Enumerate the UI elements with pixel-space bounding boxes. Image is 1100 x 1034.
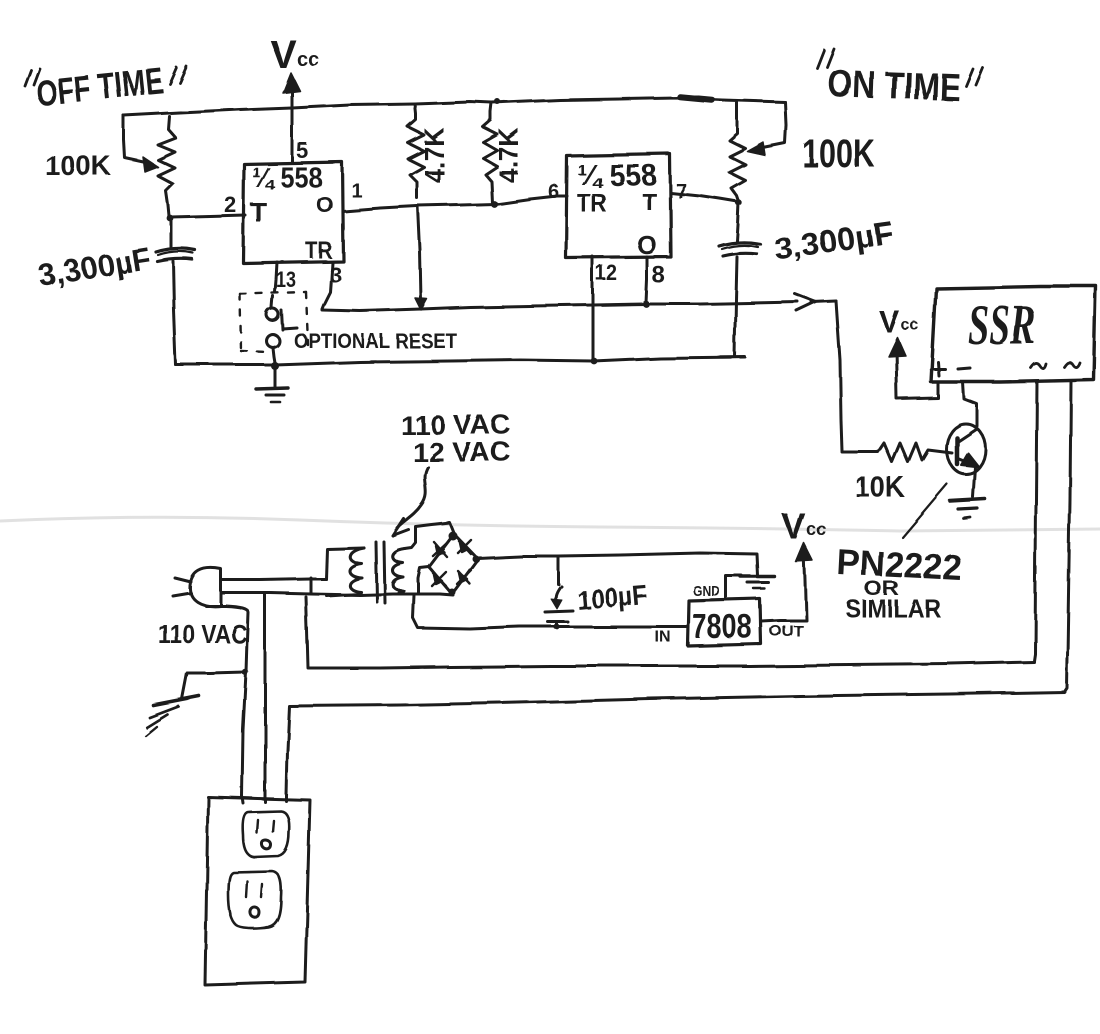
svg-text:100K: 100K — [802, 132, 875, 176]
wire U1 pin 1 output row — [343, 196, 567, 211]
svg-text:GND: GND — [693, 583, 720, 600]
node junction R4 bottom — [736, 200, 742, 206]
svg-text:cc: cc — [807, 520, 827, 540]
wire drive drop to R5 — [836, 301, 842, 451]
svg-text:SSR: SSR — [968, 294, 1036, 357]
wire to U1 pin 2 — [170, 215, 245, 217]
wire DC plus rail — [478, 553, 758, 576]
svg-text:IN: IN — [655, 629, 671, 646]
SSR terminal minus — [958, 368, 970, 369]
wire Vcc to SSR plus — [896, 348, 938, 399]
svg-text:ON TIME: ON TIME — [827, 62, 961, 110]
wire plug live — [221, 579, 326, 580]
regulator U4 GND stub — [726, 576, 742, 598]
svg-text:6: 6 — [548, 181, 559, 203]
switch SW1 optional reset dashed box — [240, 292, 308, 352]
plug prongs — [173, 578, 191, 596]
svg-text:SIMILAR: SIMILAR — [845, 595, 941, 623]
bridge diode marks — [432, 540, 471, 586]
node junction R3 top rail — [495, 99, 501, 105]
svg-text:PN2222: PN2222 — [836, 541, 964, 589]
svg-text:5: 5 — [296, 138, 308, 163]
arrowhead into SSR drive — [795, 294, 816, 311]
svg-text:O: O — [316, 192, 333, 217]
wire Vcc top rail — [124, 98, 785, 116]
svg-text:cc: cc — [901, 317, 919, 334]
svg-text:T: T — [250, 197, 267, 228]
wire SSR minus to Q1 collector — [963, 382, 977, 426]
potentiometer R4 100K body — [729, 102, 745, 202]
transistor Q1 PN2222 — [947, 424, 986, 474]
resistor R3 4.7K — [483, 103, 497, 203]
svg-text:V: V — [879, 304, 900, 339]
plug P1 body — [190, 568, 221, 606]
svg-text:1: 1 — [351, 180, 362, 202]
wire R2 bottom to reset row — [418, 206, 421, 301]
wire U1 pin 13 stub — [275, 262, 277, 292]
earth ground G3 — [153, 696, 199, 705]
capacitor C3 100uF — [557, 556, 560, 584]
ground G2 emitter — [950, 499, 985, 501]
svg-text:3: 3 — [329, 262, 341, 287]
text labels group — [24, 33, 1036, 649]
wire plug to outlet ground — [206, 606, 248, 796]
wire SSR ac2 down — [1065, 382, 1071, 691]
bridge left bracket — [418, 567, 429, 593]
junction tick — [310, 578, 313, 593]
outlet receptacle bottom — [228, 871, 281, 928]
capacitor C2 3300uF — [737, 203, 739, 241]
outlet J1 box — [205, 797, 310, 985]
svg-text:4.7K: 4.7K — [492, 128, 523, 183]
SSR terminal ac1 — [1031, 363, 1046, 368]
capacitor C1 3300uF — [170, 219, 173, 248]
wire U2 pin 12 to ground rail — [592, 257, 595, 361]
svg-text:13: 13 — [276, 267, 296, 292]
node junction pin2 — [167, 215, 174, 222]
ground G4 at 7808 — [741, 575, 775, 578]
wire stubs into outlet — [242, 796, 286, 803]
scan fold artifact — [0, 517, 1100, 531]
Vcc arrowhead top — [283, 73, 300, 93]
switch SW1 contacts — [267, 309, 279, 321]
wire secondary bottom — [360, 594, 453, 595]
svg-text:100µF: 100µF — [576, 579, 648, 616]
svg-text:110 VAC: 110 VAC — [158, 619, 247, 649]
transformer T1 core — [376, 542, 377, 602]
wire rail overdraw dark segment — [680, 97, 712, 100]
wire DC minus to 7808 IN — [413, 595, 688, 629]
svg-text:V: V — [270, 33, 297, 77]
wire U2 pin 7 to pot — [671, 193, 738, 202]
wire U2 pin 8 to drive row — [646, 257, 647, 303]
svg-text:V: V — [782, 506, 806, 547]
svg-text:¼ 558: ¼ 558 — [252, 162, 322, 194]
svg-text:2: 2 — [224, 192, 236, 217]
wire U1 pin 3 TR stub — [322, 262, 332, 309]
SSR terminal plus — [931, 362, 945, 376]
transformer T1 secondary — [393, 549, 406, 593]
wire secondary top to bridge — [405, 523, 454, 549]
SSR U3 box — [931, 286, 1096, 382]
wire to outlet live — [286, 692, 1065, 796]
resistor R2 4.7K — [408, 104, 424, 198]
svg-text:TR: TR — [305, 237, 332, 264]
bridge BR1 diamond — [429, 534, 478, 594]
wire SSR ac1 down — [1034, 382, 1037, 661]
svg-text:8: 8 — [652, 262, 665, 289]
svg-text:7808: 7808 — [692, 608, 752, 646]
svg-text:110 VAC: 110 VAC — [400, 410, 511, 440]
wire ground rail bottom — [176, 357, 745, 365]
wire plug neutral — [221, 593, 360, 595]
op-amp/timer U2 1/4 558 box — [566, 154, 671, 258]
arrowhead junction down — [415, 298, 427, 310]
wire neutral drop to outlet — [264, 594, 267, 796]
outlet receptacle top — [243, 811, 290, 857]
annotation arrow 12VAC — [396, 467, 428, 530]
potentiometer R1 100K body — [158, 117, 176, 216]
svg-text:12: 12 — [596, 261, 618, 286]
wire reset row to SSR drive — [322, 302, 798, 311]
svg-text:O: O — [637, 230, 657, 260]
wire U1 pin 5 Vcc — [291, 91, 294, 162]
resistor R5 10K — [842, 443, 952, 462]
wire rail corner to R4 wiper — [760, 102, 786, 148]
wiper arrowhead R1 — [143, 157, 158, 172]
regulator U4 7808 box — [688, 599, 761, 646]
ground G1 below reset — [271, 362, 279, 370]
svg-text:4.7K: 4.7K — [418, 128, 449, 183]
svg-text:TR: TR — [577, 188, 607, 218]
svg-text:cc: cc — [297, 49, 319, 71]
transformer T1 primary — [326, 548, 364, 579]
annotation pointer line PN2222 — [902, 484, 947, 537]
svg-text:7: 7 — [676, 181, 687, 203]
op-amp/timer U1 1/4 558 box — [243, 162, 343, 263]
wire 7808 OUT to Vcc — [761, 550, 806, 621]
wire left drop to wiper — [124, 116, 148, 163]
svg-text:100K: 100K — [45, 150, 111, 181]
node junction R3 bottom — [491, 201, 498, 208]
svg-text:OPTIONAL RESET: OPTIONAL RESET — [294, 330, 457, 353]
SSR terminal ac2 — [1064, 362, 1080, 367]
wiper arrowhead R4 — [747, 142, 765, 155]
svg-text:T: T — [642, 189, 657, 216]
wire switched live long — [306, 597, 1034, 668]
svg-text:10K: 10K — [855, 472, 905, 504]
svg-text:12 VAC: 12 VAC — [412, 437, 511, 467]
svg-text:OUT: OUT — [769, 623, 803, 640]
